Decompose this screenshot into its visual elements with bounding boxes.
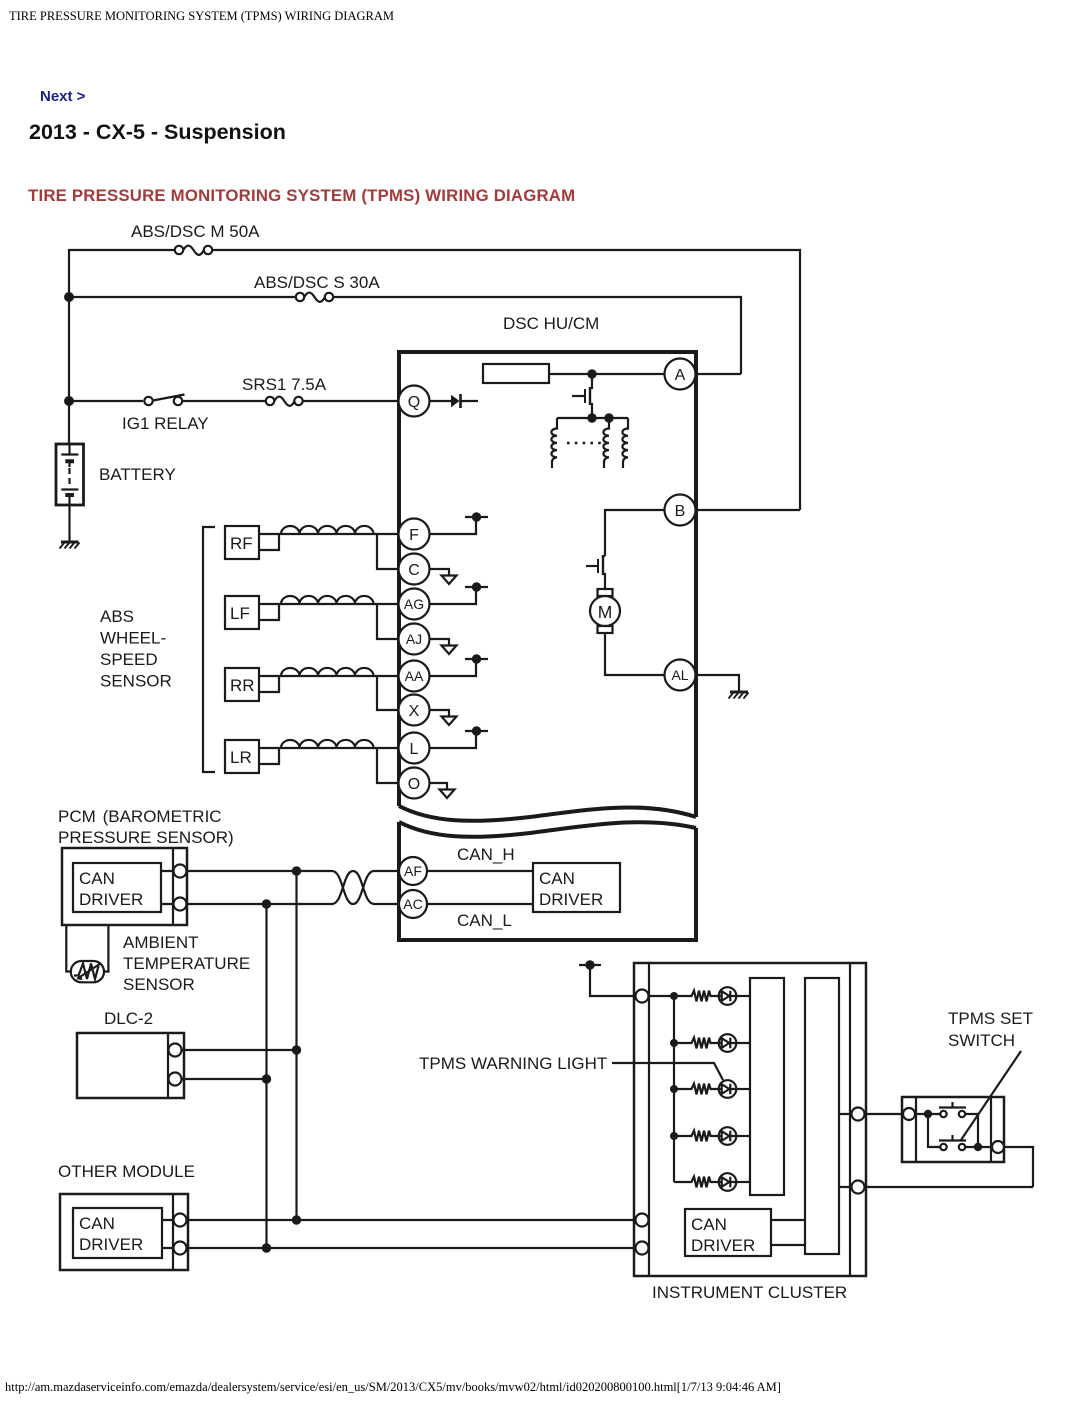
svg-text:LR: LR xyxy=(230,748,252,767)
pin cluster switch out xyxy=(852,1108,865,1121)
svg-text:WHEEL-: WHEEL- xyxy=(100,629,166,648)
module box INSTRUMENT CLUSTER xyxy=(634,963,866,1276)
sensor LR wheel speed xyxy=(225,740,398,783)
svg-text:X: X xyxy=(409,703,420,720)
ground battery xyxy=(60,542,80,549)
svg-text:DRIVER: DRIVER xyxy=(79,890,143,909)
switch box TPMS SET SWITCH xyxy=(902,1097,1004,1162)
svg-text:SENSOR: SENSOR xyxy=(123,975,195,994)
wire PCM CAN_L to AC xyxy=(161,903,332,905)
pin AF xyxy=(399,857,427,885)
svg-text:CAN: CAN xyxy=(79,1214,115,1233)
svg-text:CAN: CAN xyxy=(691,1215,727,1234)
ground AL xyxy=(729,692,749,699)
svg-text:AG: AG xyxy=(404,596,424,612)
fuse ABS/DSC S 30A xyxy=(296,293,333,302)
resistor LED row 2 xyxy=(674,1038,719,1049)
label TPMS SET SWITCH with leader xyxy=(948,1009,1033,1140)
svg-text:Q: Q xyxy=(408,394,420,411)
block cluster logic xyxy=(805,978,839,1254)
junction node LED row 1 xyxy=(670,992,678,1000)
wire cluster CAN driver to logic xyxy=(771,1220,805,1245)
wire CAN_L bus vertical xyxy=(265,904,267,1248)
pin cluster CAN_L xyxy=(636,1242,649,1255)
label AMBIENT TEMPERATURE SENSOR xyxy=(123,933,250,994)
pin DLC-2 lower xyxy=(169,1073,182,1086)
wire switch return loop xyxy=(992,1147,1033,1187)
wire resistor to pin A xyxy=(549,373,665,375)
node pull-up AA xyxy=(465,654,488,663)
svg-text:DRIVER: DRIVER xyxy=(79,1235,143,1254)
bracket ABS sensor group xyxy=(203,527,215,772)
wire solenoid header xyxy=(557,417,628,419)
LED row 1 xyxy=(719,987,750,1005)
wire DLC-2 CAN_L xyxy=(181,1078,267,1080)
inductor solenoid valve coil 2 xyxy=(603,418,609,468)
svg-text:DRIVER: DRIVER xyxy=(691,1236,755,1255)
pin AJ xyxy=(399,624,430,655)
junction node solenoid driver drain xyxy=(587,369,596,378)
svg-text:SRS1 7.5A: SRS1 7.5A xyxy=(242,375,327,394)
wire motor to pin AL xyxy=(605,633,665,675)
pin Q xyxy=(399,386,430,417)
junction node DLC-2 CAN_H xyxy=(292,1045,301,1054)
switch contacts lower xyxy=(928,1114,992,1151)
svg-text:PCM (BAROMETRIC: PCM (BAROMETRIC xyxy=(58,807,222,826)
wire LED bus vertical xyxy=(648,996,674,1182)
sensor RF wheel speed xyxy=(225,526,398,569)
wire DLC-2 CAN_H xyxy=(181,1049,297,1051)
svg-text:L: L xyxy=(410,741,419,758)
shield ground triangle C xyxy=(442,576,457,585)
module box DSC HU/CM upper xyxy=(399,352,696,821)
svg-text:AL: AL xyxy=(671,667,688,683)
pin OTHER MODULE upper xyxy=(174,1214,187,1227)
svg-text:DLC-2: DLC-2 xyxy=(104,1009,153,1028)
svg-text:AA: AA xyxy=(405,668,424,684)
wire pin L pull-up stub xyxy=(430,731,477,748)
svg-text:CAN: CAN xyxy=(79,869,115,888)
wire PCM to ambient sensor legs xyxy=(66,925,108,972)
svg-text:AC: AC xyxy=(403,896,422,912)
wire pin B to pump motor FET xyxy=(605,510,665,556)
pin PCM CAN_L xyxy=(174,898,187,911)
sensor LF wheel speed xyxy=(225,596,398,639)
pin PCM CAN_H xyxy=(174,865,187,878)
wire pin AA pull-up stub xyxy=(430,659,477,676)
resistor LED row 1 xyxy=(674,991,719,1002)
svg-text:DSC HU/CM: DSC HU/CM xyxy=(503,314,599,333)
pin A xyxy=(665,359,696,390)
switch contacts upper xyxy=(915,1102,978,1147)
module box DSC HU/CM lower CAN section xyxy=(399,822,696,940)
svg-text:RR: RR xyxy=(230,676,255,695)
svg-text:ABS/DSC M 50A: ABS/DSC M 50A xyxy=(131,222,260,241)
fuse SRS1 7.5A xyxy=(266,397,303,406)
junction node battery feed wire2 xyxy=(64,292,74,302)
junction node battery feed wire3 xyxy=(64,396,74,406)
svg-text:TPMS WARNING LIGHT: TPMS WARNING LIGHT xyxy=(419,1054,607,1073)
node pull-up AG xyxy=(465,582,488,591)
pin L xyxy=(399,733,430,764)
wire pin F pull-up stub xyxy=(430,517,477,534)
pin O xyxy=(399,768,430,799)
junction node coil bank left xyxy=(587,413,596,422)
resistor LED row 3 xyxy=(674,1084,719,1095)
wire pin AJ to shield ground xyxy=(430,639,450,645)
node pull-up L xyxy=(465,726,488,735)
LED row 3 TPMS warning light xyxy=(719,1080,750,1098)
CAN driver block PCM xyxy=(73,863,161,912)
svg-text:LF: LF xyxy=(230,604,250,623)
junction node DLC-2 CAN_L xyxy=(262,1074,271,1083)
LED row 2 xyxy=(719,1034,750,1052)
label PCM (BAROMETRIC PRESSURE SENSOR) xyxy=(58,807,234,847)
module box OTHER MODULE xyxy=(60,1194,188,1270)
svg-text:PRESSURE SENSOR): PRESSURE SENSOR) xyxy=(58,828,234,847)
pin DLC-2 upper xyxy=(169,1044,182,1057)
svg-text:AJ: AJ xyxy=(406,631,422,647)
block LED array xyxy=(750,978,784,1195)
svg-text:AMBIENT: AMBIENT xyxy=(123,933,199,952)
pin AG xyxy=(399,589,430,620)
CAN driver block cluster xyxy=(685,1209,771,1256)
wire logic to right pins xyxy=(839,1114,1033,1187)
wire pin O to shield ground xyxy=(430,783,448,789)
motor M pump xyxy=(590,589,620,633)
junction node LED row 2 xyxy=(670,1039,678,1047)
wire pin B to ABS/DSC M feed xyxy=(694,509,800,511)
resistor LED row 4 xyxy=(674,1131,719,1142)
svg-text:OTHER MODULE: OTHER MODULE xyxy=(58,1162,195,1181)
svg-text:TPMS SET: TPMS SET xyxy=(948,1009,1033,1028)
shield ground triangle X xyxy=(442,717,457,726)
pin cluster switch return xyxy=(852,1181,865,1194)
wire pin C to shield ground xyxy=(430,569,450,575)
svg-text:CAN_H: CAN_H xyxy=(457,845,515,864)
svg-text:B: B xyxy=(675,503,686,520)
junction node coil bank right xyxy=(604,413,613,422)
dotted continuation between coils xyxy=(567,442,601,445)
relay IG1 contacts xyxy=(144,395,184,406)
pin C xyxy=(399,554,430,585)
svg-text:RF: RF xyxy=(230,534,253,553)
pin AL xyxy=(665,660,696,691)
sensor RR wheel speed xyxy=(225,668,398,710)
label ABS WHEEL-SPEED SENSOR xyxy=(100,607,172,691)
junction node LED row 4 xyxy=(670,1132,678,1140)
svg-text:AF: AF xyxy=(404,863,422,879)
fuse ABS/DSC M 50A xyxy=(175,246,212,255)
node pull-up F xyxy=(465,512,488,521)
junction node module CAN_H xyxy=(292,1215,301,1224)
wire AC to DSC CAN driver xyxy=(427,903,533,905)
svg-text:TEMPERATURE: TEMPERATURE xyxy=(123,954,250,973)
svg-text:ABS/DSC S 30A: ABS/DSC S 30A xyxy=(254,273,380,292)
pin OTHER MODULE lower xyxy=(174,1242,187,1255)
wire pin A to ABS/DSC S feed xyxy=(694,373,741,375)
pin cluster CAN_H xyxy=(636,1214,649,1227)
svg-text:O: O xyxy=(408,776,420,793)
pin AA xyxy=(399,661,430,692)
svg-text:BATTERY: BATTERY xyxy=(99,465,176,484)
svg-text:C: C xyxy=(408,562,420,579)
pin X xyxy=(399,695,430,726)
wire battery to ground xyxy=(68,505,70,542)
svg-text:M: M xyxy=(598,602,613,622)
thermistor ambient temperature sensor xyxy=(71,961,104,982)
wire CAN_H bus vertical xyxy=(295,871,297,1220)
svg-text:SPEED: SPEED xyxy=(100,650,158,669)
pin F xyxy=(399,519,430,550)
svg-text:SWITCH: SWITCH xyxy=(948,1031,1015,1050)
wire AF to DSC CAN driver xyxy=(427,870,533,872)
transistor Q solenoid driver FET xyxy=(572,374,592,418)
svg-text:SENSOR: SENSOR xyxy=(100,672,172,691)
pin AC xyxy=(399,890,427,918)
resistor LED row 5 xyxy=(674,1177,719,1188)
pin switch out xyxy=(992,1141,1004,1153)
twisted pair CAN bus xyxy=(332,871,399,904)
label TPMS WARNING LIGHT with leader xyxy=(419,1054,723,1080)
junction node module CAN_L xyxy=(262,1243,271,1252)
CAN driver block OTHER MODULE xyxy=(73,1208,162,1258)
transistor pump motor FET xyxy=(586,555,605,589)
wire pin X to shield ground xyxy=(430,710,450,716)
wire OTHER MODULE CAN_H to cluster xyxy=(162,1219,636,1221)
svg-text:ABS: ABS xyxy=(100,607,134,626)
power stub instrument cluster xyxy=(579,960,636,996)
junction node CAN_H drop xyxy=(292,866,301,875)
svg-text:CAN_L: CAN_L xyxy=(457,911,512,930)
svg-text:A: A xyxy=(675,367,686,384)
wire pin AL to ground xyxy=(696,675,739,691)
module box PCM xyxy=(62,848,187,925)
wire ABS/DSC M 50A feed xyxy=(69,250,800,510)
shield ground triangle AJ xyxy=(442,646,457,655)
inductor solenoid valve coil 3 xyxy=(622,418,628,468)
wire pin Q to diode xyxy=(430,400,452,402)
shield ground triangle O xyxy=(440,790,455,799)
connector box DLC-2 xyxy=(77,1033,184,1098)
battery BATT xyxy=(56,444,84,505)
svg-text:INSTRUMENT CLUSTER: INSTRUMENT CLUSTER xyxy=(652,1283,847,1302)
pin B xyxy=(665,495,696,526)
resistor block inside DSC xyxy=(483,364,549,383)
junction node LED row 3 xyxy=(670,1085,678,1093)
diode D1 xyxy=(451,394,478,408)
inductor solenoid valve coil 1 xyxy=(551,418,557,468)
junction node CAN_L drop xyxy=(262,899,271,908)
LED row 4 xyxy=(719,1127,750,1145)
pin cluster power xyxy=(636,990,649,1003)
svg-text:F: F xyxy=(409,527,419,544)
wire OTHER MODULE CAN_L to cluster xyxy=(162,1247,636,1249)
wire pin AG pull-up stub xyxy=(430,587,477,604)
pin switch in xyxy=(903,1108,915,1120)
LED row 5 xyxy=(719,1173,750,1191)
wire PCM CAN_H to AF xyxy=(161,870,332,872)
svg-text:DRIVER: DRIVER xyxy=(539,890,603,909)
svg-text:CAN: CAN xyxy=(539,869,575,888)
CAN driver block DSC xyxy=(533,863,620,912)
svg-text:IG1 RELAY: IG1 RELAY xyxy=(122,414,209,433)
